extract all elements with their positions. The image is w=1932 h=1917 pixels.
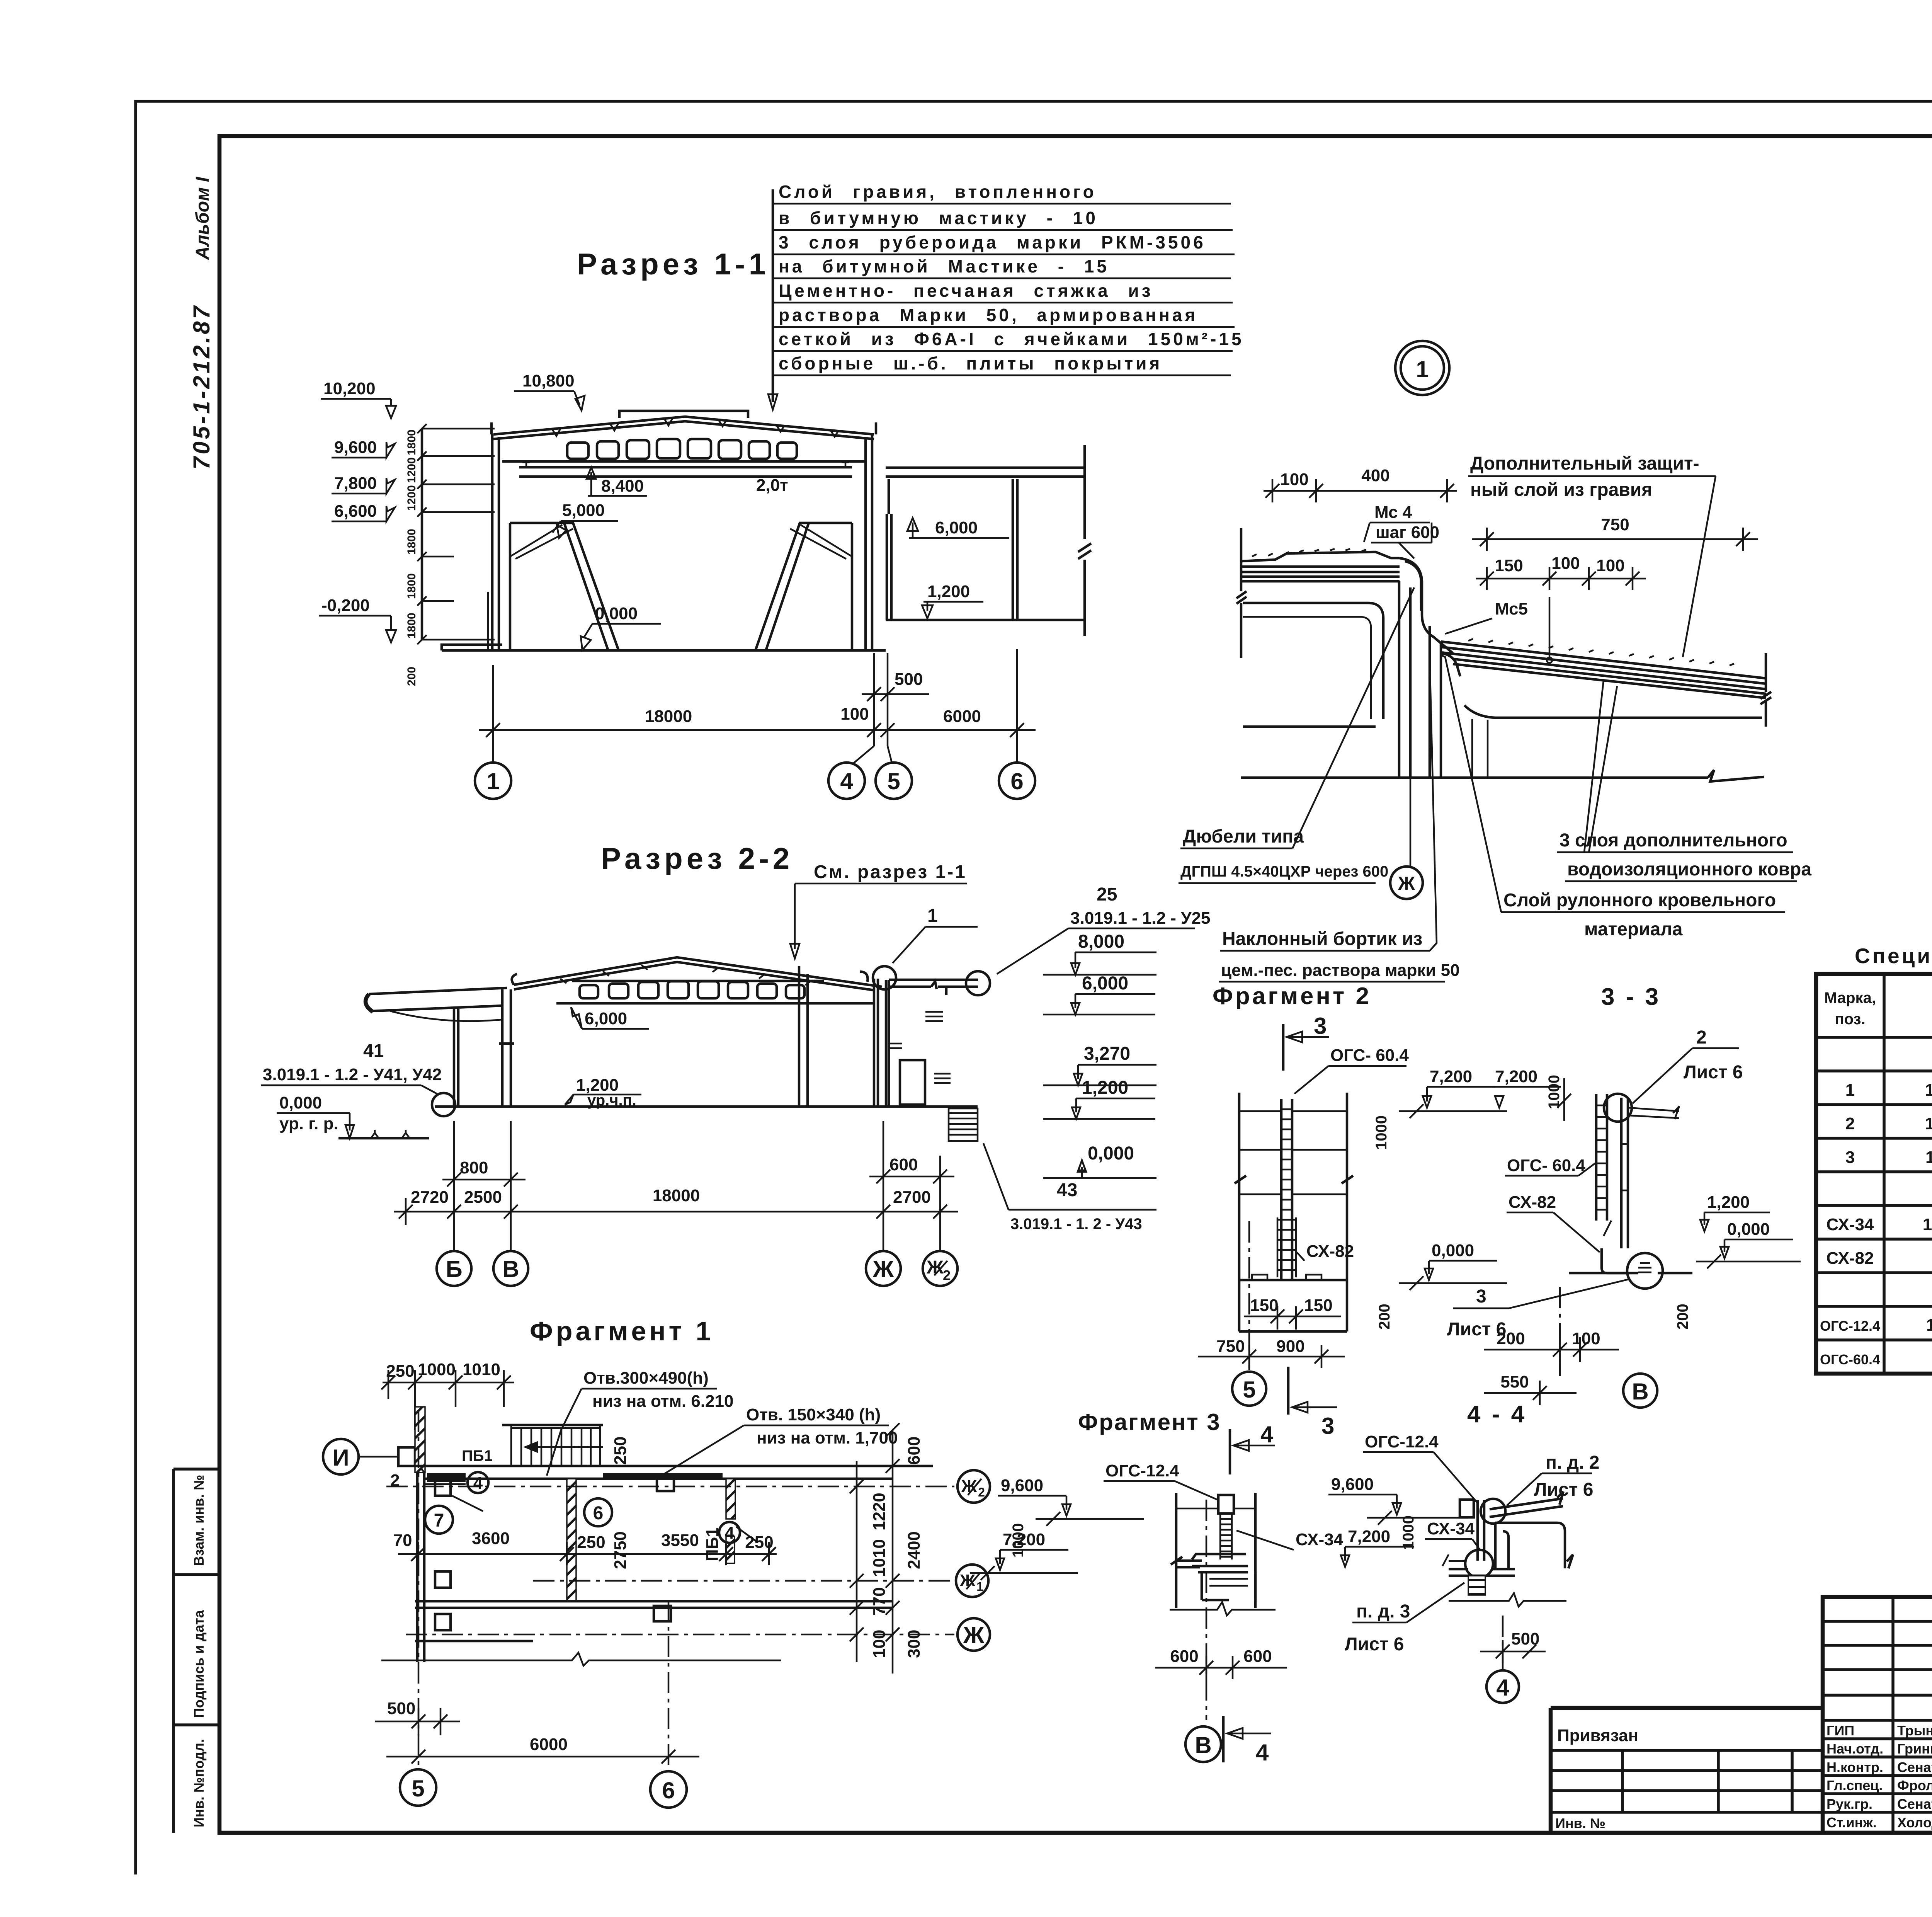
center wall verticals — [1399, 581, 1441, 778]
svg-text:СХ-34: СХ-34 — [1427, 1519, 1475, 1538]
left margin stamp cells — [173, 1469, 219, 1833]
svg-text:750: 750 — [1601, 515, 1629, 534]
svg-text:Мс 4: Мс 4 — [1374, 503, 1412, 522]
svg-text:250: 250 — [386, 1362, 414, 1381]
svg-text:Сенаторов: Сенаторов — [1897, 1759, 1932, 1775]
svg-text:4: 4 — [840, 768, 853, 794]
bottom wall — [415, 1601, 893, 1608]
post + roof — [1460, 1500, 1474, 1517]
svg-text:СХ-82: СХ-82 — [1306, 1242, 1354, 1261]
roof gable — [493, 417, 874, 434]
fascia band with holes — [567, 439, 797, 459]
svg-text:1800: 1800 — [405, 429, 418, 455]
svg-text:800: 800 — [460, 1158, 488, 1177]
svg-text:100: 100 — [1572, 1329, 1600, 1348]
svg-text:Б: Б — [446, 1256, 462, 1282]
svg-text:3 слоя дополнительного: 3 слоя дополнительного — [1560, 830, 1787, 851]
svg-text:шаг 600: шаг 600 — [1376, 523, 1439, 542]
svg-text:250: 250 — [611, 1437, 630, 1465]
svg-text:1,200: 1,200 — [1707, 1193, 1750, 1212]
svg-text:Альбом I: Альбом I — [192, 176, 213, 260]
svg-text:Холодарь: Холодарь — [1897, 1815, 1932, 1830]
svg-text:400: 400 — [1361, 466, 1389, 485]
svg-text:6,000: 6,000 — [935, 518, 978, 537]
svg-text:7: 7 — [434, 1510, 444, 1531]
svg-text:ПБ1: ПБ1 — [462, 1447, 493, 1464]
svg-text:600: 600 — [1170, 1647, 1198, 1666]
svg-text:ОГС-12.4: ОГС-12.4 — [1820, 1318, 1880, 1334]
svg-text:100: 100 — [870, 1630, 889, 1658]
grid bubbles — [437, 1251, 957, 1286]
svg-text:СХ-34: СХ-34 — [1296, 1530, 1344, 1549]
svg-text:СХ-82: СХ-82 — [1509, 1193, 1556, 1212]
svg-text:43: 43 — [1057, 1180, 1077, 1200]
svg-text:Дополнительный защит-: Дополнительный защит- — [1470, 453, 1699, 474]
svg-text:6,600: 6,600 — [334, 502, 377, 521]
svg-text:7,200: 7,200 — [1495, 1067, 1537, 1086]
fascia band with holes — [572, 980, 824, 982]
svg-text:ОГС-60.4: ОГС-60.4 — [1820, 1352, 1880, 1367]
floor lines — [1239, 1111, 1347, 1194]
svg-text:1.038.1 - 1.1 100 000 - 02: 1.038.1 - 1.1 100 000 - 02 — [1925, 1114, 1932, 1133]
svg-text:2: 2 — [1845, 1114, 1855, 1133]
bottom line with breaks — [1241, 770, 1764, 781]
svg-text:1.038.1 - 1.1 110 000 - 02: 1.038.1 - 1.1 110 000 - 02 — [1925, 1148, 1932, 1167]
svg-text:ОГС- 60.4: ОГС- 60.4 — [1330, 1046, 1409, 1065]
svg-text:водоизоляционного ковра: водоизоляционного ковра — [1567, 859, 1811, 880]
svg-text:Инв. №: Инв. № — [1555, 1815, 1605, 1831]
svg-text:ДГПШ 4.5×40ЦХР через 600: ДГПШ 4.5×40ЦХР через 600 — [1180, 863, 1388, 880]
svg-text:100: 100 — [1551, 554, 1580, 573]
svg-text:Отв.300×490(h): Отв.300×490(h) — [583, 1369, 709, 1388]
svg-text:900: 900 — [1276, 1337, 1304, 1356]
left big panel — [1243, 603, 1383, 727]
svg-text:2,0т: 2,0т — [756, 476, 788, 495]
svg-text:Слой рулонного кровельного: Слой рулонного кровельного — [1503, 890, 1776, 911]
svg-text:поз.: поз. — [1835, 1011, 1865, 1028]
break line bottom — [381, 1653, 781, 1666]
svg-text:на битумной Мастике: на битумной Мастике - 15 — [779, 256, 1109, 276]
svg-text:2: 2 — [943, 1267, 951, 1283]
svg-text:ОГС- 60.4: ОГС- 60.4 — [1507, 1156, 1585, 1175]
right roof slope layers — [1441, 642, 1766, 698]
svg-text:СХ-82: СХ-82 — [1826, 1249, 1874, 1268]
svg-text:600: 600 — [905, 1437, 923, 1465]
svg-text:0,000: 0,000 — [1432, 1241, 1474, 1260]
svg-text:цем.-пес. раствора марки 50: цем.-пес. раствора марки 50 — [1221, 961, 1460, 980]
svg-text:2750: 2750 — [611, 1531, 630, 1569]
interior hatched walls — [567, 1479, 576, 1601]
parapet end ticks — [492, 422, 876, 434]
svg-text:сборные ш.-б. плиты покрыти: сборные ш.-б. плиты покрытия — [779, 353, 1162, 373]
svg-text:6000: 6000 — [943, 707, 981, 726]
svg-text:9,600: 9,600 — [1001, 1476, 1043, 1495]
svg-text:250: 250 — [577, 1533, 605, 1552]
svg-text:1000: 1000 — [1373, 1115, 1390, 1150]
svg-text:1: 1 — [486, 768, 499, 794]
roof double line gable — [514, 957, 882, 987]
svg-text:0,000: 0,000 — [595, 604, 638, 623]
svg-text:200: 200 — [1376, 1304, 1393, 1330]
svg-text:1,200: 1,200 — [1082, 1078, 1128, 1098]
svg-text:Фролова: Фролова — [1897, 1777, 1932, 1793]
svg-text:ГИП: ГИП — [1827, 1723, 1854, 1738]
svg-text:Марка,: Марка, — [1824, 989, 1876, 1006]
svg-text:3.019.1 - 1. 2 - У43: 3.019.1 - 1. 2 - У43 — [1010, 1216, 1142, 1233]
svg-text:150: 150 — [1495, 556, 1523, 575]
svg-text:3 - 3: 3 - 3 — [1601, 984, 1661, 1010]
parapet box on ridge — [619, 411, 748, 418]
walls — [492, 434, 499, 650]
svg-text:-0,200: -0,200 — [321, 596, 370, 615]
right slab body — [1464, 705, 1762, 718]
svg-text:7,200: 7,200 — [1003, 1530, 1045, 1549]
svg-text:Ж: Ж — [1398, 873, 1415, 894]
right wall & annex — [874, 979, 889, 1107]
svg-text:8,400: 8,400 — [601, 477, 644, 495]
section mark top — [1282, 1024, 1285, 1071]
top wall — [415, 1466, 933, 1479]
svg-text:В: В — [1632, 1379, 1648, 1405]
upstand wrap — [1400, 558, 1453, 653]
svg-text:3600: 3600 — [472, 1529, 510, 1548]
svg-text:2720: 2720 — [411, 1188, 449, 1207]
svg-text:1: 1 — [927, 906, 938, 926]
svg-text:100: 100 — [1280, 470, 1308, 489]
left margin vertical texts — [189, 176, 214, 470]
svg-text:ОГС-12.4: ОГС-12.4 — [1105, 1461, 1179, 1480]
svg-text:1200: 1200 — [405, 485, 418, 511]
svg-text:8,000: 8,000 — [1078, 931, 1124, 952]
svg-text:705-1-212.87: 705-1-212.87 — [189, 304, 214, 470]
right annex — [886, 468, 1085, 477]
svg-text:7,800: 7,800 — [334, 474, 377, 493]
svg-text:4: 4 — [725, 1524, 735, 1542]
post (railing) — [1218, 1495, 1234, 1514]
svg-text:ный слой из гравия: ный слой из гравия — [1470, 480, 1652, 500]
svg-text:9,600: 9,600 — [1331, 1475, 1374, 1494]
svg-text:См. разрез 1-1: См. разрез 1-1 — [814, 862, 967, 882]
circled marks — [425, 1506, 453, 1534]
section mark bottom — [1287, 1367, 1290, 1415]
svg-text:Привязан: Привязан — [1557, 1726, 1638, 1745]
roof lines to right — [1628, 1106, 1679, 1119]
svg-text:1: 1 — [976, 1580, 983, 1594]
svg-text:1010: 1010 — [463, 1360, 500, 1379]
svg-text:70: 70 — [393, 1531, 412, 1550]
svg-text:2: 2 — [978, 1485, 985, 1499]
base elbow — [1602, 1248, 1638, 1273]
svg-text:500: 500 — [387, 1699, 415, 1718]
mc5 fillet — [1441, 653, 1460, 676]
svg-text:Рук.гр.: Рук.гр. — [1827, 1796, 1872, 1812]
svg-text:1000: 1000 — [418, 1360, 456, 1379]
svg-text:6000: 6000 — [530, 1735, 568, 1754]
svg-text:600: 600 — [1243, 1647, 1272, 1666]
svg-text:200: 200 — [405, 667, 418, 686]
svg-text:10,200: 10,200 — [323, 379, 376, 398]
left vertical wall (hatched) — [415, 1407, 425, 1473]
svg-text:0,000: 0,000 — [279, 1093, 322, 1112]
svg-text:100: 100 — [1596, 556, 1624, 575]
right elevation steps — [1078, 931, 1134, 1164]
A-frame right — [756, 523, 852, 649]
svg-text:2700: 2700 — [893, 1188, 931, 1207]
column squares — [435, 1476, 674, 1630]
svg-text:100: 100 — [840, 705, 869, 724]
svg-text:4 - 4: 4 - 4 — [1467, 1401, 1527, 1428]
svg-text:1.450.3 - 3.1 3.1.0.1.0 - 02: 1.450.3 - 3.1 3.1.0.1.0 - 02 — [1923, 1215, 1932, 1234]
svg-text:Фрагмент 1: Фрагмент 1 — [530, 1316, 714, 1346]
svg-text:3.019.1 - 1.2 - У25: 3.019.1 - 1.2 - У25 — [1070, 909, 1210, 928]
svg-text:300: 300 — [905, 1630, 923, 1658]
grid bubbles — [475, 763, 1035, 799]
svg-text:6,000: 6,000 — [1082, 973, 1128, 994]
svg-text:низ на отм. 1,700: низ на отм. 1,700 — [757, 1428, 898, 1447]
svg-text:п. д. 3: п. д. 3 — [1356, 1601, 1410, 1622]
svg-text:3: 3 — [1845, 1148, 1855, 1167]
svg-text:3550: 3550 — [661, 1531, 699, 1550]
svg-text:18000: 18000 — [653, 1186, 700, 1205]
svg-text:Сенаторов: Сенаторов — [1897, 1796, 1932, 1812]
svg-text:200: 200 — [1497, 1329, 1525, 1348]
svg-text:Разрез 2-2: Разрез 2-2 — [601, 841, 793, 875]
svg-text:Лист 6: Лист 6 — [1345, 1634, 1404, 1655]
svg-text:4: 4 — [1260, 1422, 1274, 1447]
svg-text:Лист 6: Лист 6 — [1684, 1062, 1743, 1083]
right rotated dim stack — [870, 1437, 923, 1658]
svg-text:Лист 6: Лист 6 — [1534, 1479, 1593, 1500]
svg-text:Н.контр.: Н.контр. — [1827, 1759, 1883, 1775]
svg-text:1200: 1200 — [405, 457, 418, 483]
sheet inner border frame — [219, 136, 1932, 1833]
section mark 4 top — [1229, 1429, 1231, 1474]
svg-text:СХ-34: СХ-34 — [1826, 1215, 1874, 1234]
wall + slab — [1176, 1493, 1255, 1608]
svg-text:3.019.1 - 1.2 - У41, У42: 3.019.1 - 1.2 - У41, У42 — [263, 1065, 442, 1084]
svg-text:Наклонный бортик из: Наклонный бортик из — [1222, 929, 1422, 949]
svg-text:1: 1 — [1416, 356, 1429, 382]
svg-text:Ст.инж.: Ст.инж. — [1827, 1815, 1877, 1830]
svg-text:2400: 2400 — [905, 1531, 923, 1569]
svg-text:Нач.отд.: Нач.отд. — [1827, 1741, 1883, 1757]
svg-text:3: 3 — [1476, 1286, 1486, 1307]
svg-text:0,000: 0,000 — [1727, 1220, 1770, 1239]
svg-text:18000: 18000 — [645, 707, 692, 726]
svg-text:6: 6 — [1010, 768, 1023, 794]
stair block — [511, 1425, 603, 1466]
svg-text:Разрез 1-1: Разрез 1-1 — [577, 247, 769, 281]
svg-text:7,200: 7,200 — [1348, 1527, 1390, 1546]
svg-text:Слой гравия, втопленного: Слой гравия, втопленного — [779, 182, 1097, 202]
ladder + wall — [1596, 1094, 1607, 1221]
svg-text:5: 5 — [887, 768, 900, 794]
svg-text:1800: 1800 — [405, 573, 418, 599]
svg-text:6,000: 6,000 — [585, 1009, 627, 1028]
bottom grid bubbles — [400, 1769, 436, 1806]
svg-text:Взам. инв. №: Взам. инв. № — [191, 1475, 207, 1566]
base — [1239, 1279, 1347, 1282]
svg-text:6: 6 — [662, 1777, 675, 1803]
axis + bubble — [1206, 1500, 1207, 1720]
svg-text:Отв. 150×340 (h): Отв. 150×340 (h) — [746, 1405, 881, 1424]
svg-text:150: 150 — [1250, 1296, 1278, 1315]
svg-text:200: 200 — [1674, 1304, 1691, 1330]
svg-text:Инв. №подл.: Инв. №подл. — [191, 1739, 207, 1827]
axis dash-dot lines — [386, 1486, 954, 1634]
wall verticals — [1239, 1093, 1347, 1288]
floor — [435, 1105, 978, 1108]
svg-text:25: 25 — [1097, 884, 1117, 905]
svg-text:В: В — [1195, 1732, 1211, 1758]
svg-text:6: 6 — [593, 1503, 604, 1524]
base + platform — [1465, 1550, 1493, 1578]
svg-text:п. д. 2: п. д. 2 — [1546, 1452, 1600, 1473]
svg-text:Дюбели типа: Дюбели типа — [1183, 826, 1304, 847]
svg-text:Спецификация перемычек и эл: Спецификация перемычек и элементов лестн… — [1855, 944, 1932, 968]
columns — [454, 1009, 458, 1107]
svg-text:600: 600 — [889, 1155, 918, 1174]
bottom break — [1170, 1602, 1276, 1616]
A-frame left — [510, 523, 618, 649]
axis + bubble — [1248, 1221, 1250, 1370]
svg-text:1,200: 1,200 — [927, 582, 970, 601]
svg-text:1220: 1220 — [870, 1493, 889, 1531]
svg-text:Ж: Ж — [872, 1256, 894, 1282]
svg-text:1000: 1000 — [1400, 1515, 1417, 1550]
svg-text:Ж: Ж — [963, 1622, 985, 1648]
svg-text:150: 150 — [1304, 1296, 1332, 1315]
svg-text:Мс5: Мс5 — [1495, 599, 1528, 618]
svg-text:Фрагмент 3: Фрагмент 3 — [1078, 1409, 1221, 1435]
svg-text:раствора Марки 50, армир: раствора Марки 50, армированная — [779, 305, 1198, 325]
left/right break edges — [1236, 528, 1247, 658]
svg-text:2: 2 — [390, 1471, 400, 1490]
svg-text:Гринкевич: Гринкевич — [1897, 1741, 1932, 1757]
svg-text:1800: 1800 — [405, 613, 418, 638]
svg-text:Цементно- песчаная стяжк: Цементно- песчаная стяжка из — [779, 281, 1153, 301]
door rect — [900, 1060, 925, 1105]
floor — [442, 649, 886, 652]
svg-text:сеткой из Ф6А-I с ячейками: сеткой из Ф6А-I с ячейками 150м²-15 — [779, 329, 1244, 349]
svg-text:Трынов: Трынов — [1897, 1723, 1932, 1738]
svg-text:1800: 1800 — [405, 529, 418, 555]
svg-text:9,600: 9,600 — [334, 438, 377, 457]
svg-text:5: 5 — [412, 1776, 424, 1801]
grid I bubble — [323, 1439, 359, 1474]
svg-text:Гл.спец.: Гл.спец. — [1827, 1777, 1883, 1793]
svg-text:5: 5 — [1243, 1377, 1255, 1403]
svg-text:0,000: 0,000 — [1088, 1143, 1134, 1164]
svg-text:3: 3 — [1321, 1413, 1334, 1439]
svg-text:4: 4 — [1496, 1675, 1509, 1701]
dimension line — [394, 1211, 958, 1213]
svg-text:Фрагмент 2: Фрагмент 2 — [1213, 983, 1371, 1010]
left roof layer stack — [1241, 552, 1400, 581]
svg-text:1010: 1010 — [870, 1539, 889, 1577]
svg-text:5,000: 5,000 — [562, 501, 605, 520]
svg-text:в битумную мастику - 10: в битумную мастику - 10 — [779, 208, 1098, 228]
svg-text:2500: 2500 — [464, 1188, 502, 1207]
stairs hatch — [949, 1108, 978, 1141]
svg-text:10,800: 10,800 — [522, 371, 575, 390]
svg-text:1.450.3 - 3.1 6.1.0.1.0: 1.450.3 - 3.1 6.1.0.1.0 — [1926, 1316, 1932, 1335]
right grid bubbles — [957, 1470, 990, 1503]
section mark 4 bottom — [1222, 1716, 1225, 1762]
dimension line — [479, 729, 1036, 731]
svg-text:1.038.1 - 1.1 100 000 - 02: 1.038.1 - 1.1 100 000 - 02 — [1925, 1081, 1932, 1100]
svg-text:2: 2 — [1696, 1027, 1707, 1048]
svg-text:Подпись и дата: Подпись и дата — [191, 1610, 207, 1718]
svg-text:7,200: 7,200 — [1430, 1067, 1472, 1086]
svg-text:низ на отм. 6.210: низ на отм. 6.210 — [592, 1392, 733, 1411]
svg-text:В: В — [502, 1256, 519, 1282]
svg-text:41: 41 — [363, 1041, 384, 1061]
svg-text:3,270: 3,270 — [1084, 1044, 1130, 1064]
ladder — [1281, 1099, 1292, 1279]
svg-text:4: 4 — [1256, 1740, 1269, 1765]
svg-text:И: И — [332, 1445, 349, 1471]
svg-text:3 слоя рубероида марки: 3 слоя рубероида марки РКМ-3506 — [779, 232, 1206, 252]
elevation ladder — [421, 429, 423, 640]
svg-text:3: 3 — [1314, 1013, 1327, 1039]
svg-text:4: 4 — [473, 1474, 483, 1493]
svg-text:750: 750 — [1216, 1337, 1245, 1356]
svg-text:ур. г. р.: ур. г. р. — [279, 1114, 338, 1133]
svg-text:550: 550 — [1500, 1372, 1529, 1391]
svg-text:1: 1 — [1845, 1081, 1855, 1100]
svg-text:материала: материала — [1584, 919, 1683, 940]
svg-text:770: 770 — [870, 1587, 889, 1616]
svg-text:ОГС-12.4: ОГС-12.4 — [1365, 1432, 1439, 1451]
crane beam — [519, 467, 852, 477]
parapet cap layers — [1192, 1554, 1248, 1572]
left canopy wing — [369, 988, 507, 1011]
svg-text:500: 500 — [895, 670, 923, 689]
